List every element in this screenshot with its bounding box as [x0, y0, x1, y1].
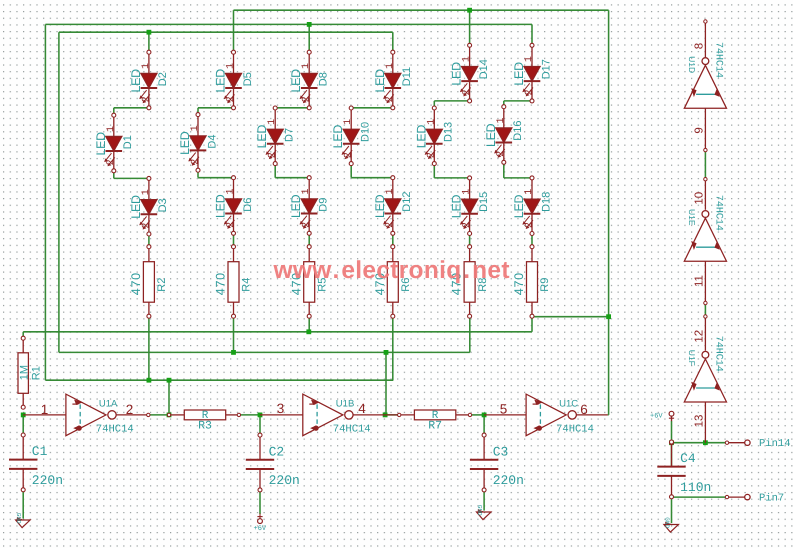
svg-text:U1A: U1A — [99, 398, 118, 409]
svg-text:3: 3 — [277, 401, 285, 416]
svg-text:1M: 1M — [19, 365, 31, 380]
svg-text:220n: 220n — [493, 473, 524, 488]
svg-text:2: 2 — [268, 152, 279, 158]
svg-text:9: 9 — [694, 127, 706, 133]
svg-text:D6: D6 — [242, 198, 254, 212]
svg-text:LED: LED — [178, 131, 192, 155]
svg-text:5: 5 — [500, 401, 508, 416]
svg-text:1: 1 — [141, 189, 152, 195]
svg-text:U1D: U1D — [687, 56, 697, 73]
svg-text:U1E: U1E — [687, 209, 697, 226]
svg-text:1: 1 — [226, 63, 237, 69]
svg-text:2: 2 — [385, 222, 396, 228]
svg-text:D10: D10 — [360, 122, 372, 142]
svg-text:U1B: U1B — [336, 398, 354, 409]
svg-text:74HC14: 74HC14 — [556, 424, 594, 436]
svg-text:2: 2 — [190, 159, 201, 165]
svg-text:1: 1 — [301, 188, 312, 194]
svg-text:2: 2 — [462, 222, 473, 228]
svg-text:Pin7: Pin7 — [759, 492, 784, 504]
svg-text:13: 13 — [694, 415, 706, 428]
svg-text:1: 1 — [462, 56, 473, 62]
svg-text:LED: LED — [484, 123, 498, 147]
svg-text:D15: D15 — [478, 192, 490, 212]
svg-text:D3: D3 — [157, 198, 169, 212]
svg-text:D13: D13 — [443, 122, 455, 142]
svg-text:GND: GND — [15, 513, 22, 524]
svg-text:LED: LED — [373, 194, 387, 218]
svg-text:1: 1 — [524, 56, 535, 62]
svg-text:D14: D14 — [478, 59, 490, 79]
svg-text:D1: D1 — [122, 135, 134, 149]
svg-text:2: 2 — [226, 96, 237, 102]
svg-text:LED: LED — [414, 125, 428, 149]
svg-text:R7: R7 — [428, 420, 442, 433]
svg-text:www.electroniq.net: www.electroniq.net — [273, 257, 510, 284]
svg-text:2: 2 — [462, 89, 473, 95]
svg-text:Pin14: Pin14 — [759, 438, 791, 450]
svg-text:D7: D7 — [284, 128, 296, 142]
svg-text:2: 2 — [302, 96, 313, 102]
svg-text:D18: D18 — [540, 192, 552, 212]
svg-text:1: 1 — [301, 63, 312, 69]
svg-text:D2: D2 — [157, 72, 169, 86]
svg-text:D9: D9 — [318, 198, 330, 212]
svg-text:D16: D16 — [512, 121, 524, 141]
svg-text:470: 470 — [512, 272, 526, 295]
svg-text:1: 1 — [385, 63, 396, 69]
svg-text:470: 470 — [214, 272, 228, 295]
svg-text:1: 1 — [343, 119, 354, 125]
svg-text:470: 470 — [129, 272, 143, 295]
svg-text:LED: LED — [129, 69, 143, 93]
svg-text:LED: LED — [512, 62, 526, 86]
svg-text:1: 1 — [190, 125, 201, 131]
svg-text:D4: D4 — [206, 135, 218, 149]
svg-text:2: 2 — [126, 402, 134, 417]
svg-text:6: 6 — [580, 402, 588, 417]
svg-text:D12: D12 — [401, 192, 413, 212]
svg-text:+6V: +6V — [254, 525, 267, 533]
svg-text:74HC14: 74HC14 — [713, 195, 724, 231]
svg-text:2: 2 — [226, 222, 237, 228]
svg-text:LED: LED — [512, 195, 526, 219]
svg-text:110n: 110n — [680, 480, 711, 495]
svg-text:1: 1 — [106, 126, 117, 132]
svg-text:C2: C2 — [269, 444, 285, 459]
svg-text:D11: D11 — [401, 67, 413, 86]
svg-text:220n: 220n — [269, 473, 300, 488]
svg-text:LED: LED — [94, 132, 108, 156]
svg-text:+6V: +6V — [650, 412, 663, 420]
svg-text:2: 2 — [106, 159, 117, 165]
svg-text:GND: GND — [664, 517, 671, 528]
svg-text:C1: C1 — [32, 444, 48, 459]
svg-text:D5: D5 — [242, 72, 254, 86]
svg-text:LED: LED — [129, 195, 143, 219]
svg-text:1: 1 — [462, 189, 473, 195]
svg-text:LED: LED — [214, 69, 228, 93]
svg-text:2: 2 — [427, 152, 438, 158]
svg-text:C4: C4 — [680, 451, 696, 466]
svg-text:LED: LED — [373, 69, 387, 93]
svg-text:R4: R4 — [241, 278, 253, 292]
svg-text:LED: LED — [331, 125, 345, 149]
svg-text:1: 1 — [426, 119, 437, 125]
svg-text:1: 1 — [226, 188, 237, 194]
svg-text:GND: GND — [476, 505, 483, 516]
svg-text:74HC14: 74HC14 — [713, 336, 724, 372]
svg-text:LED: LED — [289, 194, 303, 218]
svg-text:1: 1 — [524, 189, 535, 195]
svg-text:R3: R3 — [198, 420, 212, 433]
svg-text:LED: LED — [255, 125, 269, 149]
svg-text:U1C: U1C — [559, 398, 578, 409]
svg-text:4: 4 — [358, 401, 366, 416]
svg-text:2: 2 — [496, 151, 507, 157]
svg-text:1: 1 — [141, 63, 152, 69]
svg-text:1: 1 — [267, 119, 278, 125]
svg-text:2: 2 — [302, 222, 313, 228]
svg-text:LED: LED — [450, 62, 464, 86]
svg-text:220n: 220n — [32, 473, 63, 488]
svg-text:LED: LED — [450, 195, 464, 219]
svg-text:LED: LED — [214, 194, 228, 218]
svg-text:2: 2 — [141, 96, 152, 102]
svg-text:U1F: U1F — [687, 350, 697, 366]
svg-text:D8: D8 — [318, 72, 330, 86]
svg-text:D17: D17 — [540, 59, 552, 79]
svg-text:R2: R2 — [156, 278, 168, 292]
svg-text:1: 1 — [385, 188, 396, 194]
svg-text:R9: R9 — [539, 278, 551, 292]
svg-text:74HC14: 74HC14 — [96, 424, 134, 436]
svg-text:1: 1 — [496, 117, 507, 123]
svg-text:12: 12 — [694, 330, 706, 343]
svg-text:2: 2 — [344, 152, 355, 158]
svg-text:2: 2 — [141, 223, 152, 229]
svg-text:74HC14: 74HC14 — [333, 424, 371, 436]
svg-text:1: 1 — [41, 402, 49, 417]
svg-text:R1: R1 — [30, 366, 42, 380]
svg-text:LED: LED — [289, 69, 303, 93]
svg-text:74HC14: 74HC14 — [713, 42, 724, 78]
svg-text:2: 2 — [524, 89, 535, 95]
svg-text:8: 8 — [694, 43, 706, 49]
svg-text:11: 11 — [694, 275, 706, 287]
svg-text:C3: C3 — [493, 444, 509, 459]
svg-text:10: 10 — [694, 192, 706, 205]
svg-text:2: 2 — [524, 222, 535, 228]
svg-text:2: 2 — [385, 96, 396, 102]
